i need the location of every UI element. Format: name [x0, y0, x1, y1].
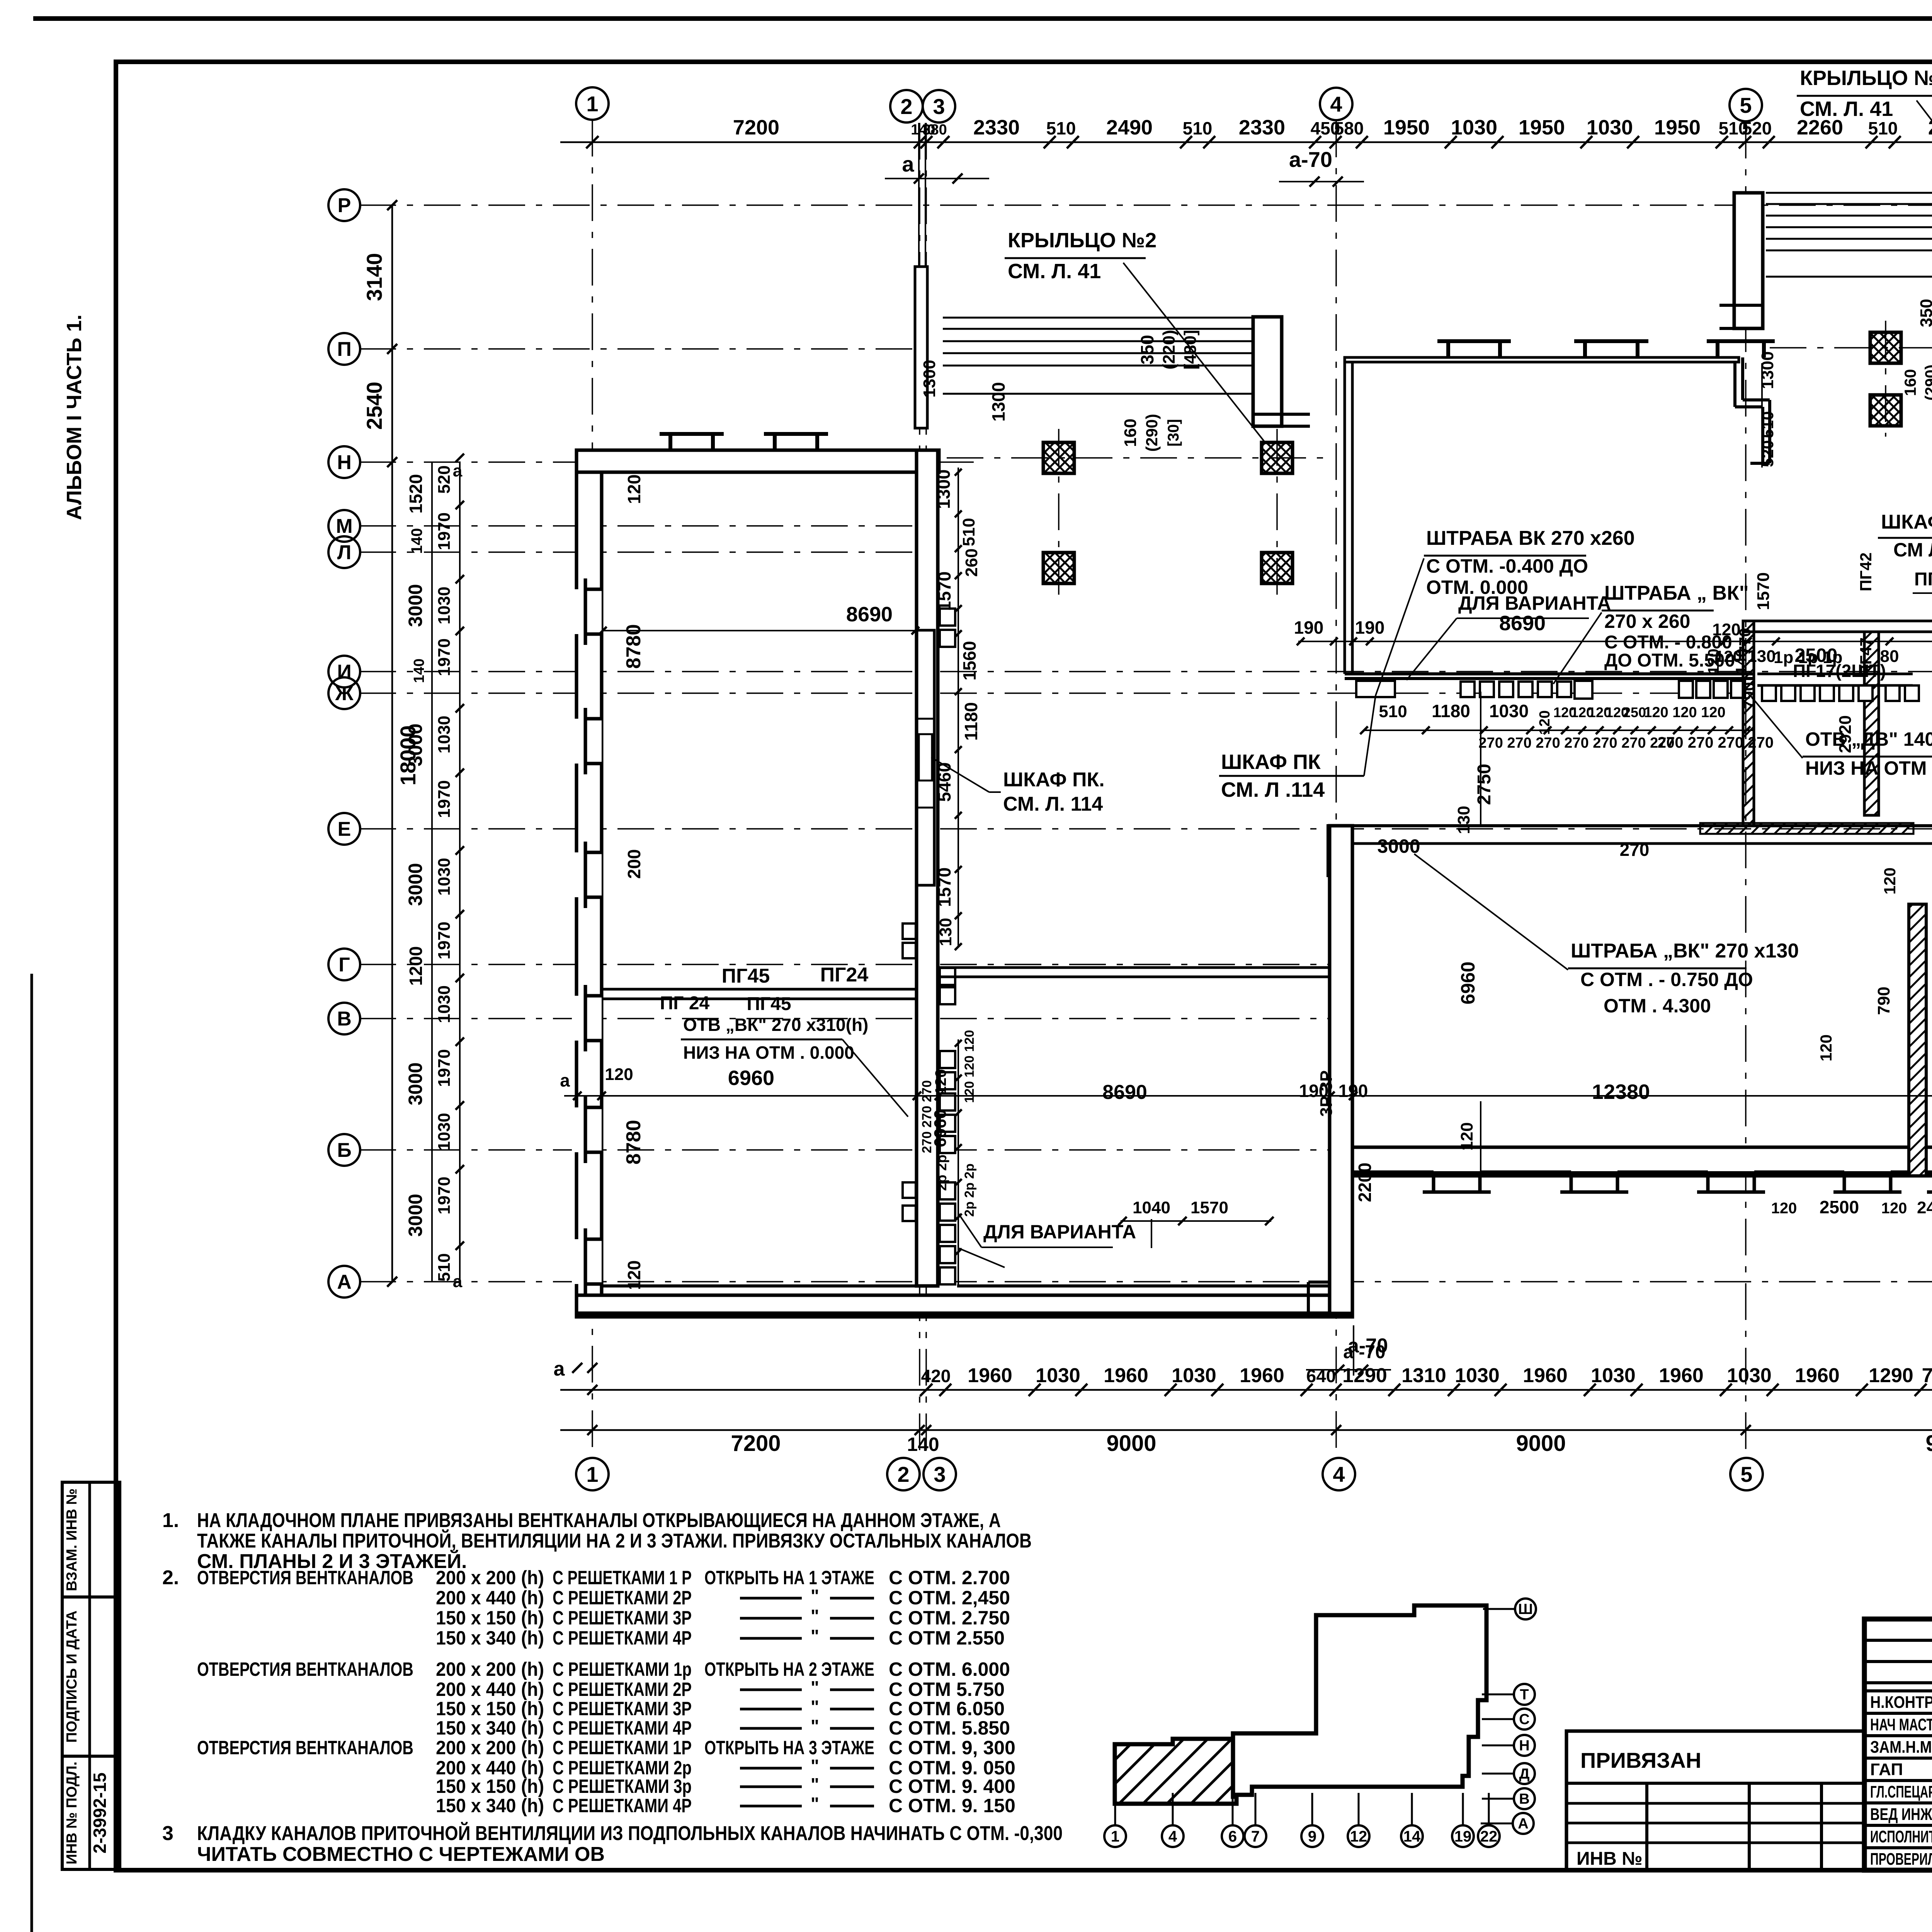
svg-text:а: а: [902, 152, 914, 176]
svg-text:С ОТМ. 6.000: С ОТМ. 6.000: [889, 1658, 1010, 1680]
svg-text:ОТКРЫТЬ НА 3 ЭТАЖЕ: ОТКРЫТЬ НА 3 ЭТАЖЕ: [704, 1737, 874, 1759]
svg-text:270: 270: [1620, 840, 1650, 860]
svg-text:2500: 2500: [1820, 1197, 1859, 1217]
svg-text:": ": [811, 1716, 819, 1736]
svg-text:ОТМ . 4.300: ОТМ . 4.300: [1604, 995, 1711, 1017]
svg-text:2: 2: [900, 94, 912, 119]
svg-text:[30]: [30]: [1165, 419, 1182, 446]
svg-text:130: 130: [1454, 806, 1473, 834]
svg-text:2540: 2540: [362, 382, 386, 430]
svg-text:790: 790: [1922, 1364, 1932, 1387]
svg-text:3: 3: [934, 1462, 946, 1486]
svg-text:3000: 3000: [1377, 835, 1420, 857]
svg-text:ПГ 42, ПГ24: ПГ 42, ПГ24: [1914, 569, 1932, 590]
svg-text:200 х 200 (h): 200 х 200 (h): [436, 1737, 544, 1759]
svg-text:120: 120: [1881, 1200, 1907, 1217]
svg-text:С РЕШЕТКАМИ 3р: С РЕШЕТКАМИ 3р: [553, 1776, 692, 1797]
svg-text:ТАКЖЕ КАНАЛЫ ПРИТОЧНОЙ, ВЕНТИЛ: ТАКЖЕ КАНАЛЫ ПРИТОЧНОЙ, ВЕНТИЛЯЦИИ НА 2 …: [197, 1529, 1032, 1552]
svg-text:510: 510: [1379, 702, 1407, 721]
svg-text:1030: 1030: [435, 716, 454, 753]
svg-text:5460: 5460: [934, 762, 954, 802]
svg-text:ГАП: ГАП: [1870, 1760, 1903, 1779]
svg-text:С ОТМ. 9, 300: С ОТМ. 9, 300: [889, 1737, 1015, 1759]
svg-text:4: 4: [1330, 92, 1342, 116]
svg-text:1520: 1520: [406, 474, 426, 514]
svg-text:7200: 7200: [733, 116, 779, 139]
svg-text:ОТВЕРСТИЯ ВЕНТКАНАЛОВ: ОТВЕРСТИЯ ВЕНТКАНАЛОВ: [197, 1658, 413, 1680]
svg-text:1970: 1970: [435, 638, 454, 676]
svg-text:1200: 1200: [406, 946, 426, 986]
svg-text:(290): (290): [1143, 414, 1161, 452]
svg-text:ШТРАБА ВК 270 х260: ШТРАБА ВК 270 х260: [1426, 527, 1635, 549]
svg-text:6: 6: [1228, 1828, 1237, 1845]
svg-text:ПГ45: ПГ45: [747, 994, 791, 1014]
svg-text:80: 80: [1880, 647, 1899, 666]
svg-text:2330: 2330: [973, 116, 1020, 139]
svg-text:а: а: [560, 1070, 570, 1090]
svg-text:С ОТМ. 5.850: С ОТМ. 5.850: [889, 1717, 1010, 1739]
svg-text:С ОТМ 2.550: С ОТМ 2.550: [889, 1627, 1005, 1649]
svg-text:7: 7: [1251, 1828, 1260, 1845]
svg-text:200 х 440 (h): 200 х 440 (h): [436, 1679, 544, 1700]
svg-text:а -70: а -70: [1343, 1342, 1385, 1362]
svg-text:2400: 2400: [1917, 1198, 1932, 1217]
svg-text:3000: 3000: [405, 723, 426, 766]
svg-text:1950: 1950: [1519, 116, 1565, 139]
svg-text:3000: 3000: [405, 584, 426, 627]
svg-text:С ОТМ. -0.400 ДО: С ОТМ. -0.400 ДО: [1426, 555, 1588, 577]
svg-text:Б: Б: [337, 1139, 351, 1162]
svg-text:": ": [811, 1774, 819, 1794]
svg-text:КРЫЛЬЦО №2: КРЫЛЬЦО №2: [1008, 229, 1156, 252]
svg-text:350: 350: [1917, 299, 1932, 327]
svg-text:С ОТМ . - 0.750 ДО: С ОТМ . - 0.750 ДО: [1580, 969, 1753, 990]
svg-text:1: 1: [586, 92, 598, 116]
svg-text:(290): (290): [1922, 364, 1932, 400]
svg-text:ШТРАБА „ВК" 270 х130: ШТРАБА „ВК" 270 х130: [1571, 940, 1799, 962]
svg-text:2500: 2500: [1794, 645, 1837, 666]
svg-text:а: а: [554, 1358, 565, 1380]
svg-text:1: 1: [586, 1462, 598, 1486]
svg-text:120 120 120: 120 120 120: [1644, 704, 1725, 721]
svg-text:22: 22: [1480, 1828, 1498, 1845]
svg-text:ОТВ „ВК" 270 х310(h): ОТВ „ВК" 270 х310(h): [683, 1015, 868, 1035]
svg-text:190: 190: [1338, 1081, 1368, 1101]
svg-text:ОТВЕРСТИЯ ВЕНТКАНАЛОВ: ОТВЕРСТИЯ ВЕНТКАНАЛОВ: [197, 1737, 413, 1759]
svg-text:С: С: [1519, 1711, 1529, 1728]
svg-text:Л: Л: [337, 541, 352, 564]
svg-text:1960: 1960: [1523, 1364, 1568, 1387]
svg-text:150 х 340 (h): 150 х 340 (h): [436, 1627, 544, 1649]
svg-text:ИНВ №: ИНВ №: [1577, 1849, 1643, 1869]
svg-text:9000: 9000: [1516, 1431, 1566, 1456]
svg-text:2р 2р: 2р 2р: [934, 1155, 949, 1191]
svg-text:1030: 1030: [1587, 116, 1633, 139]
svg-text:КРЫЛЬЦО №3: КРЫЛЬЦО №3: [1800, 66, 1932, 90]
svg-text:1040: 1040: [1133, 1198, 1170, 1217]
svg-text:3140: 3140: [362, 253, 386, 301]
svg-text:510: 510: [435, 1253, 454, 1281]
svg-text:1290: 1290: [1869, 1364, 1913, 1387]
svg-text:1300: 1300: [988, 382, 1009, 422]
svg-text:ШКАФ ПК: ШКАФ ПК: [1221, 750, 1321, 774]
svg-text:120: 120: [605, 1065, 633, 1084]
svg-text:1030: 1030: [435, 858, 454, 896]
svg-text:1030: 1030: [1489, 701, 1529, 721]
svg-text:270 270 270 270 270 270 270: 270 270 270 270 270 270 270: [1478, 735, 1674, 751]
svg-text:С РЕШЕТКАМИ 3Р: С РЕШЕТКАМИ 3Р: [553, 1607, 692, 1629]
svg-text:1030: 1030: [1591, 1364, 1636, 1387]
svg-text:8690: 8690: [846, 603, 893, 626]
svg-text:120: 120: [1537, 710, 1553, 735]
svg-text:150 х 340 (h): 150 х 340 (h): [436, 1717, 544, 1739]
svg-text:Н.КОНТР.: Н.КОНТР.: [1870, 1693, 1932, 1712]
svg-text:Г: Г: [338, 954, 350, 976]
svg-text:2750: 2750: [1474, 764, 1495, 805]
svg-text:9: 9: [1308, 1828, 1316, 1845]
svg-text:ДЛЯ ВАРИАНТА: ДЛЯ ВАРИАНТА: [983, 1221, 1136, 1243]
svg-text:ШТРАБА „ ВК": ШТРАБА „ ВК": [1604, 582, 1748, 604]
svg-text:С РЕШЕТКАМИ 1р: С РЕШЕТКАМИ 1р: [553, 1658, 692, 1680]
svg-text:640: 640: [1306, 1366, 1336, 1386]
svg-text:А: А: [337, 1271, 352, 1293]
svg-text:12380: 12380: [1592, 1080, 1650, 1104]
svg-text:250: 250: [1623, 704, 1646, 720]
svg-text:ГЛ.СПЕЦАР: ГЛ.СПЕЦАР: [1870, 1782, 1932, 1801]
svg-text:510: 510: [1868, 118, 1898, 138]
svg-text:1.: 1.: [162, 1509, 179, 1532]
svg-text:Д: Д: [1519, 1766, 1529, 1782]
svg-text:1030: 1030: [1451, 116, 1497, 139]
svg-text:420: 420: [921, 1366, 951, 1386]
svg-text:ПГ45: ПГ45: [722, 965, 770, 987]
svg-text:200 х 440 (h): 200 х 440 (h): [436, 1587, 544, 1609]
svg-text:": ": [811, 1586, 819, 1606]
svg-text:190: 190: [1294, 617, 1324, 638]
svg-text:С ОТМ. 2.700: С ОТМ. 2.700: [889, 1567, 1010, 1588]
svg-text:ОТКРЫТЬ НА 2 ЭТАЖЕ: ОТКРЫТЬ НА 2 ЭТАЖЕ: [704, 1658, 874, 1680]
svg-text:2490: 2490: [1106, 116, 1153, 139]
svg-text:ИСПОЛНИТ: ИСПОЛНИТ: [1870, 1827, 1932, 1846]
svg-text:1570: 1570: [934, 867, 954, 907]
svg-text:1970: 1970: [435, 1177, 454, 1214]
svg-text:Ш: Ш: [1518, 1601, 1533, 1617]
svg-text:790: 790: [1874, 986, 1893, 1015]
svg-text:ЗАМ.Н.М.: ЗАМ.Н.М.: [1870, 1738, 1932, 1757]
svg-text:140: 140: [1733, 649, 1750, 675]
svg-text:С РЕШЕТКАМИ 1 Р: С РЕШЕТКАМИ 1 Р: [553, 1567, 692, 1588]
svg-text:350: 350: [1137, 335, 1157, 365]
svg-text:а: а: [453, 1272, 463, 1291]
svg-text:5: 5: [1740, 1462, 1752, 1486]
svg-text:150 х 340 (h): 150 х 340 (h): [436, 1795, 544, 1816]
svg-text:150 х 150 (h): 150 х 150 (h): [436, 1776, 544, 1797]
svg-text:С РЕШЕТКАМИ 2Р: С РЕШЕТКАМИ 2Р: [553, 1587, 692, 1609]
svg-text:1030: 1030: [1172, 1364, 1216, 1387]
svg-text:Т: Т: [1520, 1687, 1529, 1703]
svg-text:1570: 1570: [934, 571, 954, 611]
svg-text:200 х 200 (h): 200 х 200 (h): [436, 1567, 544, 1588]
svg-text:С ОТМ 6.050: С ОТМ 6.050: [889, 1698, 1005, 1719]
svg-text:120: 120: [1881, 867, 1899, 895]
svg-text:2р 2р 2р: 2р 2р 2р: [962, 1163, 977, 1217]
svg-text:ИНВ № ПОДЛ.: ИНВ № ПОДЛ.: [64, 1762, 80, 1864]
svg-text:1960: 1960: [1659, 1364, 1704, 1387]
svg-text:520: 520: [1742, 118, 1772, 138]
svg-text:140: 140: [907, 1434, 939, 1455]
svg-text:С ОТМ. 9. 400: С ОТМ. 9. 400: [889, 1776, 1015, 1797]
svg-text:8780: 8780: [622, 1120, 645, 1165]
svg-text:270 270 270 270: 270 270 270 270: [1658, 734, 1774, 751]
svg-text:СМ. Л .114: СМ. Л .114: [1221, 778, 1325, 801]
svg-text:200 х 200 (h): 200 х 200 (h): [436, 1658, 544, 1680]
svg-text:1950: 1950: [1383, 116, 1430, 139]
svg-text:510: 510: [1046, 118, 1076, 138]
svg-text:120: 120: [624, 1260, 644, 1290]
svg-text:СМ. Л. 114: СМ. Л. 114: [1003, 793, 1103, 815]
svg-text:СМ Л. 114: СМ Л. 114: [1893, 539, 1932, 561]
svg-text:С РЕШЕТКАМИ 4Р: С РЕШЕТКАМИ 4Р: [553, 1627, 692, 1649]
svg-text:2200: 2200: [1355, 1163, 1375, 1202]
svg-text:1950: 1950: [1654, 116, 1701, 139]
svg-text:6960: 6960: [728, 1066, 774, 1090]
svg-text:": ": [811, 1606, 819, 1626]
svg-text:190: 190: [1299, 1081, 1329, 1101]
svg-text:НА КЛАДОЧНОМ ПЛАНЕ ПРИВЯЗАНЫ В: НА КЛАДОЧНОМ ПЛАНЕ ПРИВЯЗАНЫ ВЕНТКАНАЛЫ …: [197, 1509, 1001, 1532]
svg-text:П: П: [337, 338, 351, 361]
svg-text:3: 3: [162, 1822, 173, 1845]
svg-text:120: 120: [1458, 1122, 1476, 1150]
svg-text:С ОТМ 5.750: С ОТМ 5.750: [889, 1679, 1005, 1700]
svg-text:НАЧ МАСТ.: НАЧ МАСТ.: [1870, 1715, 1932, 1734]
svg-text:ВЕД ИНЖ.: ВЕД ИНЖ.: [1870, 1805, 1932, 1824]
svg-text:": ": [811, 1697, 819, 1717]
svg-text:Н: Н: [337, 451, 352, 474]
svg-text:ПГ 24: ПГ 24: [660, 993, 710, 1014]
svg-text:": ": [811, 1756, 819, 1776]
svg-text:160: 160: [1901, 369, 1919, 396]
svg-text:ДЛЯ ВАРИАНТА: ДЛЯ ВАРИАНТА: [1458, 592, 1611, 614]
svg-text:1960: 1960: [1240, 1364, 1284, 1387]
svg-text:Ж: Ж: [335, 682, 354, 705]
svg-text:1970: 1970: [435, 1049, 454, 1087]
svg-text:ПОДПИСЬ И ДАТА: ПОДПИСЬ И ДАТА: [64, 1611, 80, 1743]
svg-text:ШКАФ ПК: ШКАФ ПК: [1881, 511, 1932, 533]
svg-text:120 120 120: 120 120 120: [962, 1030, 977, 1103]
svg-text:120: 120: [1817, 1034, 1835, 1061]
svg-text:260: 260: [962, 548, 981, 577]
svg-text:1300: 1300: [920, 360, 939, 398]
svg-text:1960: 1960: [1104, 1364, 1148, 1387]
svg-text:ШКАФ ПК.: ШКАФ ПК.: [1003, 769, 1105, 791]
svg-text:2920: 2920: [1836, 715, 1855, 753]
svg-text:НИЗ НА ОТМ . 2,650: НИЗ НА ОТМ . 2,650: [1805, 757, 1932, 779]
svg-text:1030: 1030: [435, 587, 454, 624]
svg-text:В: В: [337, 1008, 352, 1030]
svg-text:140: 140: [408, 528, 425, 554]
svg-text:ПРОВЕРИЛ: ПРОВЕРИЛ: [1870, 1850, 1932, 1869]
svg-text:3000: 3000: [405, 1194, 426, 1236]
svg-text:": ": [811, 1626, 819, 1646]
svg-text:И: И: [337, 661, 351, 683]
svg-text:2-3992-15: 2-3992-15: [90, 1772, 110, 1854]
svg-text:270 х 260: 270 х 260: [1604, 611, 1690, 632]
svg-text:С РЕШЕТКАМИ 4Р: С РЕШЕТКАМИ 4Р: [553, 1717, 692, 1739]
svg-text:5: 5: [1740, 93, 1752, 117]
svg-text:130: 130: [936, 918, 955, 946]
svg-text:140: 140: [411, 658, 427, 683]
svg-text:200: 200: [624, 849, 644, 879]
svg-text:1180: 1180: [961, 702, 981, 741]
svg-text:ПГ24: ПГ24: [820, 964, 869, 986]
svg-text:19: 19: [1454, 1828, 1472, 1845]
svg-text:8690: 8690: [1102, 1081, 1147, 1104]
svg-text:В: В: [1519, 1791, 1529, 1807]
svg-text:150 х 150 (h): 150 х 150 (h): [436, 1607, 544, 1629]
svg-text:ОТВЕРСТИЯ ВЕНТКАНАЛОВ: ОТВЕРСТИЯ ВЕНТКАНАЛОВ: [197, 1567, 413, 1588]
svg-text:1030: 1030: [435, 985, 454, 1023]
svg-text:8690: 8690: [1499, 612, 1546, 635]
svg-text:[480]: [480]: [1181, 330, 1200, 370]
svg-text:ОТВ „ДВ" 140 х 250 (h): ОТВ „ДВ" 140 х 250 (h): [1805, 728, 1932, 750]
svg-text:150 х 150 (h): 150 х 150 (h): [436, 1698, 544, 1719]
svg-text:С ОТМ. 2.750: С ОТМ. 2.750: [889, 1607, 1010, 1629]
svg-text:2.: 2.: [162, 1566, 179, 1589]
svg-text:ЧИТАТЬ СОВМЕСТНО С ЧЕРТЕЖАМИ: ЧИТАТЬ СОВМЕСТНО С ЧЕРТЕЖАМИ ОВ: [197, 1843, 605, 1866]
svg-text:ВЗАМ. ИНВ №: ВЗАМ. ИНВ №: [64, 1488, 80, 1591]
svg-text:Н: Н: [1519, 1738, 1529, 1754]
svg-text:1: 1: [1111, 1828, 1119, 1845]
svg-text:3: 3: [933, 94, 945, 119]
svg-text:160: 160: [1121, 418, 1140, 447]
svg-text:510: 510: [959, 518, 978, 546]
svg-text:4: 4: [1168, 1828, 1177, 1845]
svg-text:14: 14: [1403, 1828, 1421, 1845]
svg-text:1310: 1310: [1401, 1364, 1446, 1387]
svg-text:М: М: [336, 515, 352, 537]
svg-text:1180: 1180: [1432, 701, 1470, 721]
svg-text:4: 4: [1333, 1462, 1345, 1486]
svg-text:АЛЬБОМ I ЧАСТЬ 1.: АЛЬБОМ I ЧАСТЬ 1.: [63, 315, 86, 520]
svg-text:3000: 3000: [405, 863, 426, 906]
svg-text:С РЕШЕТКАМИ 3Р: С РЕШЕТКАМИ 3Р: [553, 1698, 692, 1719]
svg-text:А: А: [1518, 1816, 1528, 1832]
svg-text:(220): (220): [1160, 330, 1179, 370]
svg-text:СМ. Л. 41: СМ. Л. 41: [1008, 260, 1101, 283]
svg-text:580: 580: [1334, 118, 1364, 138]
svg-text:а-70: а-70: [1289, 147, 1332, 172]
svg-text:1960: 1960: [968, 1364, 1012, 1387]
svg-text:С РЕШЕТКАМИ 2Р: С РЕШЕТКАМИ 2Р: [553, 1679, 692, 1700]
svg-text:СМ. Л. 41: СМ. Л. 41: [1800, 97, 1893, 121]
svg-text:120: 120: [1705, 649, 1722, 675]
svg-text:ПГ42: ПГ42: [1857, 553, 1875, 592]
svg-text:270 270 270: 270 270 270: [920, 1080, 934, 1153]
svg-text:Е: Е: [338, 818, 351, 840]
svg-text:": ": [811, 1794, 819, 1814]
svg-text:1570: 1570: [1754, 572, 1773, 610]
svg-text:1560: 1560: [959, 641, 980, 680]
svg-text:1030: 1030: [435, 1113, 454, 1151]
svg-text:С РЕШЕТКАМИ 1Р: С РЕШЕТКАМИ 1Р: [553, 1737, 692, 1759]
svg-text:7200: 7200: [731, 1431, 781, 1456]
svg-text:Р: Р: [338, 194, 351, 217]
svg-text:ОТКРЫТЬ НА 1 ЭТАЖЕ: ОТКРЫТЬ НА 1 ЭТАЖЕ: [704, 1567, 874, 1588]
svg-text:1570: 1570: [1190, 1198, 1228, 1217]
svg-text:120: 120: [1771, 1200, 1797, 1217]
svg-text:КЛАДКУ КАНАЛОВ ПРИТОЧНОЙ ВЕ: КЛАДКУ КАНАЛОВ ПРИТОЧНОЙ ВЕНТИЛЯЦИИ ИЗ П…: [197, 1822, 1063, 1845]
svg-text:1030: 1030: [1036, 1364, 1080, 1387]
svg-text:190: 190: [1355, 617, 1385, 638]
svg-text:2: 2: [897, 1462, 909, 1486]
svg-text:1300: 1300: [934, 469, 954, 509]
svg-text:510: 510: [1183, 118, 1213, 138]
svg-text:1030: 1030: [1727, 1364, 1772, 1387]
svg-text:120: 120: [932, 1069, 949, 1095]
svg-text:С ОТМ. 9. 150: С ОТМ. 9. 150: [889, 1795, 1015, 1816]
svg-text:1970: 1970: [435, 512, 454, 550]
svg-text:ПРИВЯЗАН: ПРИВЯЗАН: [1580, 1748, 1701, 1772]
svg-text:3000: 3000: [405, 1062, 426, 1105]
svg-text:520: 520: [435, 465, 454, 493]
svg-text:120: 120: [624, 474, 644, 504]
svg-text:": ": [811, 1677, 819, 1697]
svg-text:С ОТМ. 2,450: С ОТМ. 2,450: [889, 1587, 1010, 1609]
svg-text:12: 12: [1350, 1828, 1367, 1845]
svg-text:ПГ47: ПГ47: [1857, 638, 1875, 677]
svg-text:1970: 1970: [435, 780, 454, 818]
svg-text:9000: 9000: [1925, 1431, 1932, 1456]
svg-text:1960: 1960: [1795, 1364, 1840, 1387]
svg-text:2330: 2330: [1239, 116, 1285, 139]
svg-text:С РЕШЕТКАМИ 4Р: С РЕШЕТКАМИ 4Р: [553, 1795, 692, 1816]
svg-text:790: 790: [1740, 682, 1758, 709]
svg-text:9000: 9000: [1106, 1431, 1156, 1456]
svg-text:1300: 1300: [1758, 351, 1777, 389]
svg-text:1970: 1970: [435, 922, 454, 959]
svg-text:1030: 1030: [1455, 1364, 1500, 1387]
svg-text:6960: 6960: [1457, 961, 1479, 1004]
svg-text:а: а: [453, 461, 463, 480]
svg-text:НИЗ НА ОТМ . 0.000: НИЗ НА ОТМ . 0.000: [683, 1043, 854, 1063]
